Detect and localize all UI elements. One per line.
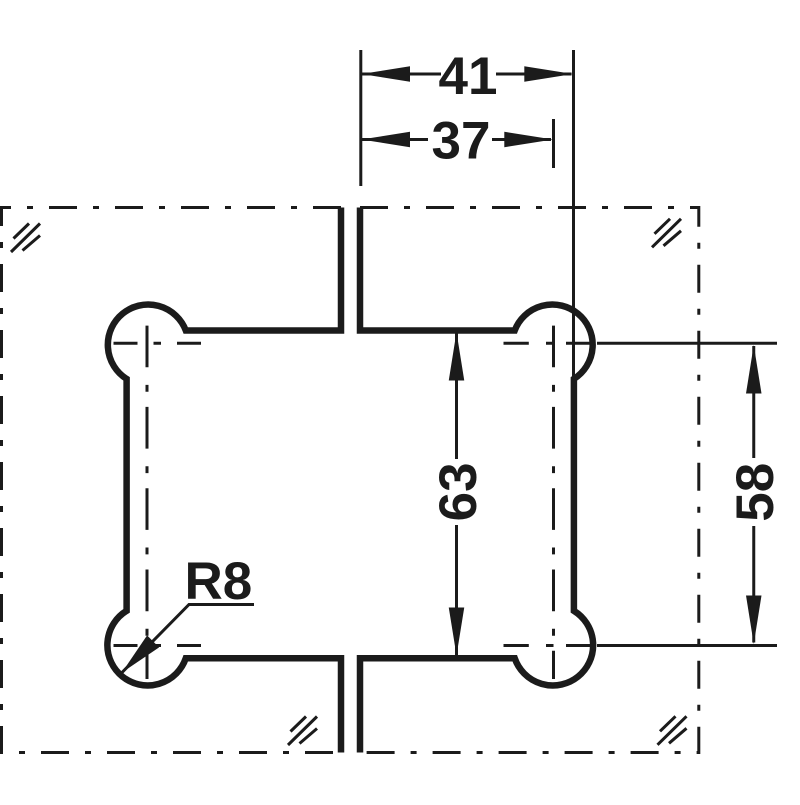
cutout profile left panel (thick) (107, 208, 341, 753)
glass hatch bottom-left (288, 717, 317, 746)
svg-text:R8: R8 (185, 552, 253, 611)
svg-text:63: 63 (429, 462, 488, 521)
centerline horizontal hole bottom-right (504, 644, 778, 647)
svg-text:58: 58 (726, 463, 785, 522)
label R8 arrowhead (122, 635, 159, 672)
dim 41 line (362, 73, 441, 76)
centerline vertical left holes (146, 326, 149, 679)
centerline horizontal hole top-right (504, 342, 778, 345)
label R8 leader line (122, 605, 254, 673)
svg-text:37: 37 (432, 112, 491, 171)
dim 63 arrow top (449, 332, 465, 381)
glass hatch bottom-right (658, 716, 687, 745)
dim 58 arrow top (746, 345, 762, 394)
centerline horizontal hole top-left (114, 342, 202, 345)
dim 41 arrow left (361, 66, 410, 82)
dim 58 line (752, 346, 755, 458)
cutout profile right panel (thick) (360, 208, 593, 753)
dim 41 extension line left (359, 50, 362, 186)
dim 37 arrow right (504, 132, 553, 148)
dim 37 arrow left (361, 132, 410, 148)
glass panel left outline (dash-dot) (2, 208, 342, 753)
dim 63 arrow bottom (449, 608, 465, 656)
centerline horizontal hole bottom-left (114, 644, 202, 647)
dim 41 extension line right (572, 50, 575, 377)
dim 37 line (362, 138, 428, 141)
glass panel right outline (dash-dot) (360, 208, 699, 753)
dim 63 line (455, 333, 458, 459)
centerline vertical right holes (552, 326, 555, 679)
glass hatch top-left (11, 224, 40, 253)
dim 58 arrow bottom (746, 596, 762, 645)
svg-text:41: 41 (439, 47, 498, 106)
dim 37 tick right (552, 119, 555, 168)
dim 41 arrow right (524, 66, 573, 82)
glass hatch top-right (652, 219, 681, 248)
